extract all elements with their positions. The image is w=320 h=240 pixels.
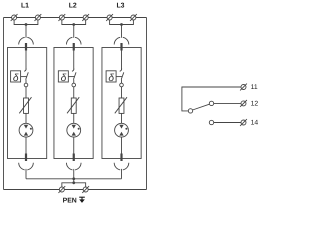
varistor module 1: [19, 97, 31, 113]
junction dot PEN bracket: [72, 181, 75, 184]
varistor module 3: [115, 97, 127, 113]
left frame wire: [3, 18, 5, 190]
terminal L1 (right clamp): [35, 14, 42, 21]
junction dot bus/module 2: [72, 177, 75, 180]
plug-in base contact (bottom arc) module 3: [114, 163, 129, 170]
wire L3 down to plug contact: [121, 25, 123, 38]
svg-text:L3: L3: [116, 3, 124, 10]
indicator circle module 2: [72, 83, 76, 87]
svg-text:14: 14: [251, 120, 259, 127]
wire indicator to varistor module 2: [73, 87, 75, 98]
wire spark gap to bottom blade module 1: [25, 137, 27, 153]
plug blade (bottom) module 2: [73, 154, 75, 162]
disconnector switch blade module 3: [121, 72, 124, 79]
wire contact 11: [182, 87, 241, 111]
earth symbol: [79, 197, 85, 203]
module 1 enclosure box: [8, 48, 47, 159]
contact 12 circle: [209, 101, 213, 105]
fixed contact tip module 2: [72, 69, 74, 72]
wire module 2 to PEN bus: [73, 169, 75, 179]
disconnector switch blade module 1: [26, 72, 29, 79]
wire to disconnector module 2: [73, 51, 75, 70]
wire contact 12: [214, 102, 241, 104]
terminal 14: [240, 119, 247, 126]
svg-text:L1: L1: [21, 3, 29, 10]
wire bracket joining L3 terminals: [110, 20, 134, 24]
wire to disconnector module 1: [25, 51, 27, 70]
bottom bus joining modules: [26, 178, 122, 180]
terminal 12: [240, 100, 247, 107]
plug blade (bottom) module 3: [120, 154, 122, 162]
plug-in base contact (bottom arc) module 1: [19, 163, 34, 170]
disconnector link module 3: [116, 76, 122, 78]
gas discharge tube (spark gap) module 3: [115, 123, 129, 137]
module 2 enclosure box: [54, 48, 93, 159]
wire module 3 to PEN bus: [121, 169, 123, 179]
wire L1 down to plug contact: [25, 25, 27, 38]
right frame wire: [146, 18, 148, 190]
svg-text:δ: δ: [13, 73, 19, 84]
wire L2 down to plug contact: [73, 25, 75, 38]
wire bracket joining L1 terminals: [14, 20, 38, 24]
plug-in base contact (top arc) module 2: [66, 37, 81, 44]
contact 14 circle: [209, 120, 213, 124]
PEN bracket: [62, 183, 86, 187]
wire varistor to spark gap module 1: [25, 113, 27, 123]
wire indicator to varistor module 3: [121, 87, 123, 98]
junction dot L3: [120, 23, 123, 26]
wire module 1 to PEN bus: [25, 169, 27, 179]
bottom PE wire: [4, 189, 147, 191]
terminal 11: [240, 84, 247, 91]
wire blade to indicator module 1: [25, 80, 27, 84]
fixed contact tip module 3: [120, 69, 122, 72]
wire contact 14: [214, 122, 241, 124]
wire spark gap to bottom blade module 2: [73, 137, 75, 153]
module 3 enclosure box: [102, 48, 141, 159]
PEN terminal (right clamp): [82, 186, 89, 193]
svg-text:12: 12: [251, 101, 259, 108]
terminal L1 (left clamp): [11, 14, 18, 21]
thermal disconnector box module 3: [106, 71, 116, 84]
wire varistor to spark gap module 3: [121, 113, 123, 123]
gas discharge tube (spark gap) module 1: [19, 123, 33, 137]
fixed contact tip module 1: [24, 69, 26, 72]
plug-in base contact (top arc) module 3: [114, 37, 129, 44]
terminal L3 (right clamp): [130, 14, 137, 21]
wire varistor to spark gap module 2: [73, 113, 75, 123]
varistor module 2: [67, 97, 79, 113]
plug blade (top) module 2: [73, 43, 75, 51]
svg-text:11: 11: [251, 84, 258, 91]
terminal L3 (left clamp): [106, 14, 113, 21]
svg-text:PEN: PEN: [63, 198, 77, 205]
changeover switch blade: [193, 104, 210, 110]
svg-text:δ: δ: [108, 73, 114, 84]
wire bracket joining L2 terminals: [62, 20, 86, 24]
wire bus to PEN bracket: [73, 179, 75, 183]
plug-in base contact (bottom arc) module 2: [66, 163, 81, 170]
svg-text:L2: L2: [69, 3, 77, 10]
indicator circle module 1: [24, 83, 28, 87]
disconnector link module 2: [68, 76, 74, 78]
disconnector link module 1: [21, 76, 27, 78]
thermal disconnector box module 2: [58, 71, 68, 84]
wire indicator to varistor module 1: [25, 87, 27, 98]
disconnector switch blade module 2: [73, 72, 76, 79]
indicator circle module 3: [120, 83, 124, 87]
plug blade (top) module 1: [25, 43, 27, 51]
plug blade (top) module 3: [120, 43, 122, 51]
junction dot L1: [25, 23, 28, 26]
wire to disconnector module 3: [121, 51, 123, 70]
wire spark gap to bottom blade module 3: [121, 137, 123, 153]
changeover pivot contact: [188, 109, 192, 113]
plug-in base contact (top arc) module 1: [19, 37, 34, 44]
thermal disconnector box module 1: [11, 71, 21, 84]
plug blade (bottom) module 1: [25, 154, 27, 162]
wire blade to indicator module 2: [73, 80, 75, 84]
gas discharge tube (spark gap) module 2: [67, 123, 81, 137]
svg-text:δ: δ: [61, 73, 67, 84]
junction dot L2: [72, 23, 75, 26]
wire blade to indicator module 3: [121, 80, 123, 84]
terminal L2 (right clamp): [82, 14, 89, 21]
PEN terminal (left clamp): [58, 186, 65, 193]
terminal L2 (left clamp): [58, 14, 65, 21]
top supply wire L1-L2-L3: [4, 17, 147, 19]
